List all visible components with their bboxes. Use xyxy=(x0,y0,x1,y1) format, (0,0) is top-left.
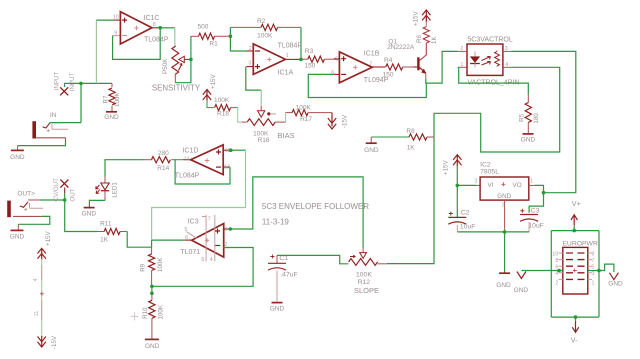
wire IC1C out to P50K xyxy=(160,28,175,46)
svg-text:2: 2 xyxy=(555,281,558,287)
svg-text:IC1A: IC1A xyxy=(278,69,294,76)
svg-text:10: 10 xyxy=(552,251,558,257)
svg-text:5C3 ENVELOPE FOLLOWER: 5C3 ENVELOPE FOLLOWER xyxy=(262,202,369,211)
wire IC1B feedback pin6 to Q1 emitter node xyxy=(308,74,426,97)
svg-text:R18: R18 xyxy=(217,110,229,117)
svg-text:3: 3 xyxy=(248,61,251,67)
wire vactrol pin3 to V+ node xyxy=(511,51,576,192)
node INPUT flag xyxy=(60,82,83,96)
svg-text:R9: R9 xyxy=(140,263,147,271)
jack J2 OUT xyxy=(7,190,43,217)
op-amp IC1A xyxy=(246,43,302,77)
svg-text:100K: 100K xyxy=(296,104,312,111)
svg-text:IC1B: IC1B xyxy=(364,51,380,58)
svg-text:10uF: 10uF xyxy=(460,223,476,230)
svg-text:150: 150 xyxy=(383,71,394,78)
svg-text:IC1D: IC1D xyxy=(183,147,199,154)
svg-text:2N2222A: 2N2222A xyxy=(387,44,415,51)
wire R18 to R16 xyxy=(238,108,247,123)
label SENSITIVITY xyxy=(152,84,201,93)
resistor R7 100K xyxy=(102,83,121,111)
supply +15V (Q1) xyxy=(413,10,431,26)
svg-text:100K: 100K xyxy=(257,32,273,39)
label V+ xyxy=(572,199,581,208)
led LED1 xyxy=(96,177,119,201)
svg-text:500: 500 xyxy=(198,23,209,30)
svg-text:GND: GND xyxy=(145,343,160,350)
optocoupler IC4 5C3VACTROL xyxy=(458,37,520,87)
svg-text:+15V: +15V xyxy=(443,160,450,175)
ground GND arrow (right) xyxy=(608,273,623,288)
svg-text:GND: GND xyxy=(10,154,25,161)
jack J1 IN xyxy=(32,112,68,139)
op-amp IC1D (mirrored) xyxy=(175,145,231,180)
svg-text:7: 7 xyxy=(208,216,211,222)
ground GND (IC2) xyxy=(496,273,511,289)
resistor R17 100K xyxy=(292,104,332,123)
node OUT flag xyxy=(60,180,68,202)
supply +15V (IC1 power) xyxy=(38,231,53,260)
resistor R3 150 xyxy=(301,48,339,70)
ground GND (R5) xyxy=(521,134,536,144)
label V- xyxy=(571,336,578,345)
svg-text:100K: 100K xyxy=(356,271,372,278)
svg-text:280: 280 xyxy=(158,150,169,157)
svg-text:5: 5 xyxy=(185,227,188,233)
wire R16 to R17 xyxy=(286,113,293,123)
wire +15V to IC2 VI and C2 xyxy=(457,165,480,217)
svg-text:100K: 100K xyxy=(157,304,164,319)
wire R14 to LED1 xyxy=(105,160,143,177)
supply -15V (IC1 power) xyxy=(38,335,59,349)
connector origin cross xyxy=(573,269,577,273)
potentiometer P50K SENSITIVITY xyxy=(162,46,191,83)
svg-text:9: 9 xyxy=(592,251,595,257)
node gnd left xyxy=(557,269,561,273)
svg-text:BIAS: BIAS xyxy=(278,131,295,140)
resistor R10 100K xyxy=(142,293,165,339)
svg-text:INPUT: INPUT xyxy=(54,72,61,91)
ground GND (input jack) xyxy=(10,150,25,160)
label INPUT (net name 2) xyxy=(69,73,76,92)
ground GND (R10) xyxy=(145,339,160,350)
svg-text:5: 5 xyxy=(592,265,595,271)
svg-text:13: 13 xyxy=(224,164,230,170)
wire R2 to IC1A output xyxy=(300,27,302,59)
svg-text:C1: C1 xyxy=(279,255,288,262)
svg-text:CV/OUT: CV/OUT xyxy=(53,178,60,202)
svg-text:150: 150 xyxy=(305,63,316,70)
transistor Q1 2N2222A xyxy=(387,39,426,80)
resistor R2 100K xyxy=(230,18,301,40)
wire R9 to R10 xyxy=(151,286,153,293)
svg-text:100K: 100K xyxy=(114,92,121,107)
svg-text:4: 4 xyxy=(555,271,558,277)
svg-text:VO: VO xyxy=(513,182,522,189)
node IC1A output xyxy=(299,58,303,62)
ic1 power pins 4/11 xyxy=(33,259,44,335)
svg-text:GND: GND xyxy=(10,233,25,240)
wire IC2 VO to V+ node xyxy=(529,185,544,192)
svg-text:10uF: 10uF xyxy=(528,223,544,230)
connector pin numbers right xyxy=(592,251,595,286)
connector pin numbers left xyxy=(552,251,558,286)
svg-text:GND: GND xyxy=(497,193,511,200)
svg-text:-15V: -15V xyxy=(342,114,349,128)
svg-text:R10: R10 xyxy=(142,307,149,319)
svg-text:R1: R1 xyxy=(209,41,218,48)
svg-text:100K: 100K xyxy=(157,257,164,272)
svg-text:4: 4 xyxy=(33,278,39,281)
svg-text:11-3-19: 11-3-19 xyxy=(262,218,290,227)
ground GND (LED1) xyxy=(82,208,97,218)
svg-text:LED1: LED1 xyxy=(111,182,118,198)
label INPUT (net name 1) xyxy=(54,72,61,91)
svg-text:5: 5 xyxy=(335,56,338,62)
svg-text:2: 2 xyxy=(460,46,463,52)
resistor R1 500 xyxy=(191,23,231,47)
wire IC3 pin3 to R12 wiper xyxy=(230,177,363,249)
svg-text:3: 3 xyxy=(505,46,508,52)
node P50K wiper xyxy=(189,58,193,62)
wire IC3 out to node xyxy=(152,239,185,241)
svg-text:TL084P: TL084P xyxy=(144,37,169,44)
svg-text:6: 6 xyxy=(331,70,334,76)
svg-text:GND: GND xyxy=(270,305,285,312)
wire jack OUT sleeve to ground xyxy=(13,216,50,229)
svg-text:GND: GND xyxy=(514,287,529,294)
wire vactrol pin1 to R5 xyxy=(459,67,529,94)
node R9/pin2 xyxy=(150,285,154,289)
svg-text:-15V: -15V xyxy=(51,335,58,349)
svg-text:7: 7 xyxy=(369,61,372,67)
wire IC1A pin3 to R16 wiper xyxy=(246,67,261,106)
ground GND (R7) xyxy=(104,112,119,121)
svg-text:1K: 1K xyxy=(431,36,438,44)
svg-text:1: 1 xyxy=(530,178,533,184)
svg-text:100K: 100K xyxy=(214,97,230,104)
svg-text:7805L: 7805L xyxy=(480,169,499,176)
svg-text:R16: R16 xyxy=(258,137,270,144)
svg-text:TL071: TL071 xyxy=(180,249,200,256)
svg-text:+15V: +15V xyxy=(413,11,420,26)
svg-text:7: 7 xyxy=(592,258,595,264)
resistor R14 280 xyxy=(143,150,184,172)
svg-text:9: 9 xyxy=(114,31,117,37)
node IC2 VI xyxy=(456,184,460,188)
svg-text:1: 1 xyxy=(286,53,289,59)
node europower V- bottom xyxy=(574,315,578,319)
wire LED1 to ground xyxy=(89,200,105,207)
potentiometer R12 100K SLOPE xyxy=(348,248,387,286)
svg-text:180: 180 xyxy=(533,113,540,124)
potentiometer R16 100K BIAS xyxy=(247,106,285,144)
node gnd right xyxy=(597,269,601,273)
label CV/OUT (net name) xyxy=(53,178,60,202)
wire junction to IC1A pin2 xyxy=(230,36,246,51)
ground GND (R8) xyxy=(364,137,379,154)
svg-text:3: 3 xyxy=(592,271,595,277)
label 5C3 ENVELOPE FOLLOWER xyxy=(262,202,369,211)
svg-text:.47uF: .47uF xyxy=(280,271,297,278)
capacitor C2 10uF xyxy=(448,210,475,232)
wire jack IN sleeve to ground xyxy=(18,138,66,150)
supply +15V (R18) xyxy=(203,74,217,101)
svg-text:2: 2 xyxy=(249,46,252,52)
wire wiper to R1 xyxy=(190,36,192,59)
svg-text:IC3: IC3 xyxy=(188,218,199,225)
label 11-3-19 xyxy=(262,218,290,227)
wire IC1D feedback pin13 xyxy=(175,160,230,184)
wire europower gnd left xyxy=(521,270,562,272)
op-amp IC1C xyxy=(113,12,169,44)
op-amp IC3 TL071 (mirrored) xyxy=(180,215,230,263)
svg-text:3: 3 xyxy=(475,178,478,184)
label OUT (net name) xyxy=(69,188,76,201)
resistor R5 180 xyxy=(519,95,540,134)
svg-text:3: 3 xyxy=(224,227,227,233)
node R9/R10 xyxy=(150,291,154,295)
node R1/R2/IC1A junction xyxy=(229,34,233,38)
supply arrow V+ (europower) xyxy=(571,215,577,231)
node V+ junction xyxy=(542,191,546,195)
svg-text:OUT>: OUT> xyxy=(17,190,35,197)
label BIAS xyxy=(278,131,295,140)
svg-text:R7: R7 xyxy=(102,95,109,103)
wire europower outer rectangle xyxy=(551,231,599,318)
svg-text:8: 8 xyxy=(201,257,204,263)
wire Q1 emitter to vactrol pin2 xyxy=(426,51,458,83)
svg-text:R8: R8 xyxy=(406,128,415,135)
svg-text:SENSITIVITY: SENSITIVITY xyxy=(152,84,201,93)
wire IN tip to input node xyxy=(50,83,112,122)
svg-text:5C3VACTROL: 5C3VACTROL xyxy=(467,37,512,44)
capacitor C1 .47uF xyxy=(268,255,298,302)
ground GND (output jack) xyxy=(10,230,25,240)
svg-text:IC2: IC2 xyxy=(480,162,491,169)
svg-text:R11: R11 xyxy=(100,221,112,228)
svg-text:INPUT: INPUT xyxy=(69,73,76,92)
supply +15V (IC2) xyxy=(443,155,462,175)
svg-text:C2: C2 xyxy=(461,210,470,217)
svg-text:R6: R6 xyxy=(416,35,423,43)
wire C1 to R12 xyxy=(277,255,348,263)
svg-text:R17: R17 xyxy=(300,116,312,123)
node europower V+ top xyxy=(572,229,576,233)
node IC3 pin3 xyxy=(229,227,233,231)
svg-text:R5: R5 xyxy=(519,113,526,121)
voltage regulator IC2 7805L xyxy=(475,162,534,209)
svg-text:R14: R14 xyxy=(157,165,169,172)
svg-text:1K: 1K xyxy=(100,237,109,244)
node IC1D pin12 xyxy=(229,148,233,152)
svg-text:C3: C3 xyxy=(531,207,540,214)
svg-text:GND: GND xyxy=(82,210,97,217)
ground GND arrow (left) xyxy=(514,272,529,295)
svg-text:SLOPE: SLOPE xyxy=(354,286,379,295)
svg-text:V-: V- xyxy=(571,336,578,345)
svg-text:1K: 1K xyxy=(407,144,416,151)
svg-text:GND: GND xyxy=(608,280,623,287)
resistor R6 1K xyxy=(416,16,438,44)
svg-text:8: 8 xyxy=(555,258,558,264)
wire OUT node xyxy=(40,188,97,232)
svg-text:4: 4 xyxy=(210,257,213,263)
resistor R4 150 xyxy=(383,57,414,78)
supply arrow V- (europower) xyxy=(572,317,578,332)
node IC2 ground xyxy=(503,230,507,234)
svg-text:R2: R2 xyxy=(257,18,266,25)
wire europower gnd right xyxy=(588,264,614,272)
svg-text:OUT: OUT xyxy=(69,188,76,201)
svg-text:R4: R4 xyxy=(384,57,393,64)
svg-text:EUROPWR: EUROPWR xyxy=(562,240,598,247)
svg-text:6: 6 xyxy=(185,235,188,241)
wire vactrol pin4 to envelope net xyxy=(387,67,560,263)
resistor R18 100K xyxy=(207,97,238,117)
wire V+ node to C3 xyxy=(529,193,543,213)
wire P50K bottom to wiper xyxy=(175,59,191,82)
node IC1C output xyxy=(158,26,162,30)
svg-text:14: 14 xyxy=(184,156,190,162)
svg-text:8: 8 xyxy=(153,22,156,28)
supply -15V (R17) xyxy=(328,113,349,129)
svg-text:IC1C: IC1C xyxy=(144,15,160,22)
svg-text:+15V: +15V xyxy=(210,74,217,89)
svg-text:GND: GND xyxy=(364,147,379,154)
svg-text:R3: R3 xyxy=(305,48,314,55)
svg-text:GND: GND xyxy=(496,282,511,289)
wire input node to IC1C pin 10 (riser) xyxy=(96,20,114,83)
svg-text:P50K: P50K xyxy=(162,58,169,74)
resistor R9 100K xyxy=(140,247,164,286)
connector pin stubs xyxy=(559,253,593,279)
capacitor C3 10uF xyxy=(520,207,544,232)
connector X1 EUROPWR xyxy=(562,240,598,294)
svg-text:1: 1 xyxy=(592,281,595,287)
svg-text:IN: IN xyxy=(50,112,57,119)
wire capacitor grounds xyxy=(457,200,529,272)
svg-text:TL084P: TL084P xyxy=(278,43,303,50)
resistor R8 1K xyxy=(371,128,434,151)
svg-text:11: 11 xyxy=(34,311,40,317)
svg-text:V+: V+ xyxy=(572,199,581,208)
ground GND (C1) xyxy=(270,303,285,313)
wire IC1C feedback pin9 xyxy=(113,28,161,60)
svg-text:TL084P: TL084P xyxy=(175,173,200,180)
svg-text:GND: GND xyxy=(104,114,119,121)
wire IC1D pin12 to envelope node (pale) xyxy=(152,150,246,247)
wire R11 to R9 node xyxy=(127,232,151,248)
wire IC3 pin2 feedback xyxy=(152,248,253,287)
op-amp IC1B xyxy=(324,51,388,84)
sheet marker cross xyxy=(131,312,139,320)
svg-text:10: 10 xyxy=(113,15,119,21)
svg-text:+15V: +15V xyxy=(45,231,52,246)
svg-text:GND: GND xyxy=(521,137,536,144)
resistor R11 1K xyxy=(97,221,127,244)
svg-text:VI: VI xyxy=(488,182,494,189)
label SLOPE xyxy=(354,286,379,295)
